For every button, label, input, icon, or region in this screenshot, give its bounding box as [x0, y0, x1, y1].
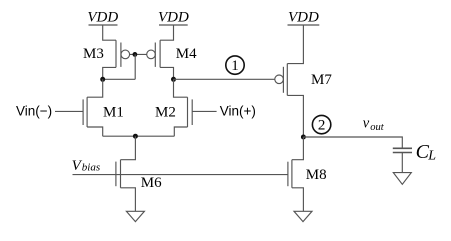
- svg-text:M1: M1: [103, 104, 124, 120]
- wire: node B down to M2 drain: [174, 79, 188, 97]
- wire: capacitor to ground: [401, 153, 403, 173]
- junction: M3/M4 common gate: [133, 52, 138, 57]
- wire: gate of M3 to gate of M4: [130, 53, 147, 55]
- wire: VDD rail to M4 source: [160, 25, 173, 40]
- transistor M7 (PMOS second stage): [275, 64, 333, 96]
- wire: output node down to M8 drain: [292, 137, 304, 160]
- junction: tail node (sources of M1,M2): [133, 134, 138, 139]
- wire: M2 source to tail node: [174, 127, 187, 136]
- svg-text:v: v: [363, 115, 370, 131]
- wire: Vin(-) to M1 gate: [55, 110, 83, 112]
- wire: node A down to M1 drain: [87, 79, 103, 97]
- power VDD (M3 branch): rail and label: [87, 9, 118, 25]
- input label Vin(-): [16, 104, 52, 119]
- svg-text:L: L: [427, 148, 436, 163]
- wire: tail rail: [103, 135, 175, 137]
- ground (below M6): [126, 211, 144, 221]
- svg-text:out: out: [370, 122, 385, 133]
- transistor M6 (NMOS tail current source): [116, 160, 162, 191]
- output label v_out: [363, 115, 385, 132]
- input label Vin(+): [220, 104, 256, 119]
- transistor M8 (NMOS output stage): [288, 160, 327, 188]
- junction: node A (M3 drain / M1 drain): [100, 77, 105, 82]
- wire: VDD rail to M3 source: [103, 25, 116, 40]
- bias label V_bias: [72, 158, 101, 174]
- transistor M2 (NMOS): [155, 97, 192, 127]
- svg-text:M8: M8: [306, 167, 327, 183]
- wire: M6 source to ground: [121, 188, 136, 212]
- wire: node A horizontal (M3 drain to tie-down): [103, 78, 136, 80]
- svg-text:M6: M6: [141, 175, 162, 191]
- svg-text:Vin(+): Vin(+): [220, 104, 256, 119]
- svg-text:M7: M7: [311, 72, 332, 88]
- junction: output node (drains of M7,M8): [301, 135, 306, 140]
- node 2 (circled label): [312, 115, 330, 133]
- transistor M1 (NMOS): [83, 97, 124, 127]
- wire: M4 drain down to node B: [160, 67, 173, 79]
- wire: gate junction down to M3 drain (diode connection): [134, 54, 136, 79]
- transistor M4 (PMOS): [147, 40, 197, 67]
- svg-text:VDD: VDD: [158, 9, 189, 25]
- ground (below M8): [294, 211, 312, 221]
- power VDD (M7 branch): rail and label: [288, 9, 320, 25]
- svg-text:1: 1: [231, 58, 239, 74]
- svg-text:2: 2: [318, 118, 326, 134]
- wire: node B to M7 gate (net 1): [174, 78, 275, 80]
- wire: M2 gate to Vin(+): [192, 110, 216, 112]
- wire: VDD rail to M7 source: [287, 25, 303, 64]
- wire: M1 source to tail node: [87, 127, 103, 136]
- junction: node B (M4 drain / M2 drain): [171, 77, 176, 82]
- svg-text:M4: M4: [176, 46, 197, 62]
- wire: Vbias line to gates of M6 and M8: [73, 174, 288, 176]
- capacitor CL: [393, 141, 436, 163]
- wire: M8 source to ground: [292, 188, 304, 212]
- svg-text:bias: bias: [82, 161, 100, 173]
- svg-text:VDD: VDD: [87, 9, 118, 25]
- wire: tail node down to M6 drain: [121, 136, 136, 160]
- svg-text:Vin(−): Vin(−): [16, 104, 52, 119]
- transistor M3 (PMOS): [83, 40, 130, 67]
- wire: M3 drain down to node A: [103, 67, 116, 79]
- svg-text:M3: M3: [83, 46, 104, 62]
- svg-text:VDD: VDD: [288, 9, 319, 25]
- wire: output node to load capacitor: [303, 137, 402, 148]
- node 1 (circled label): [226, 56, 244, 74]
- svg-text:M2: M2: [155, 104, 176, 120]
- power VDD (M4 branch): rail and label: [158, 9, 189, 25]
- ground (below CL): [393, 173, 411, 185]
- wire: M7 drain down to output node: [287, 95, 303, 137]
